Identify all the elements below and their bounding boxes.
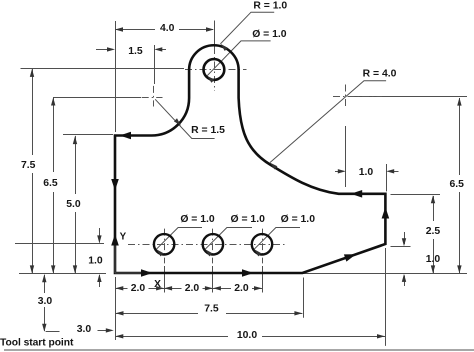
svg-text:1.0: 1.0 bbox=[88, 255, 103, 266]
svg-text:2.0: 2.0 bbox=[185, 283, 200, 294]
svg-text:6.5: 6.5 bbox=[449, 179, 464, 190]
svg-text:6.5: 6.5 bbox=[43, 178, 58, 189]
svg-text:10.0: 10.0 bbox=[237, 330, 257, 341]
svg-text:Ø = 1.0: Ø = 1.0 bbox=[180, 214, 215, 225]
svg-text:Ø = 1.0: Ø = 1.0 bbox=[252, 29, 287, 40]
svg-text:7.5: 7.5 bbox=[21, 160, 36, 171]
svg-text:5.0: 5.0 bbox=[66, 199, 81, 210]
svg-text:R = 1.0: R = 1.0 bbox=[253, 0, 287, 11]
svg-text:R = 1.5: R = 1.5 bbox=[191, 125, 225, 136]
svg-text:X: X bbox=[154, 279, 161, 290]
svg-text:3.0: 3.0 bbox=[77, 324, 92, 335]
svg-text:1.0: 1.0 bbox=[426, 254, 441, 265]
svg-text:Ø = 1.0: Ø = 1.0 bbox=[281, 214, 316, 225]
svg-text:2.0: 2.0 bbox=[234, 283, 249, 294]
svg-text:R = 4.0: R = 4.0 bbox=[363, 68, 397, 79]
svg-text:2.5: 2.5 bbox=[426, 226, 441, 237]
svg-text:3.0: 3.0 bbox=[38, 296, 53, 307]
svg-text:7.5: 7.5 bbox=[204, 304, 219, 315]
svg-text:Tool start point: Tool start point bbox=[0, 338, 74, 349]
svg-text:1.0: 1.0 bbox=[359, 167, 374, 178]
svg-text:4.0: 4.0 bbox=[160, 23, 175, 34]
svg-text:Y: Y bbox=[120, 232, 127, 243]
svg-text:1.5: 1.5 bbox=[128, 46, 143, 57]
svg-text:2.0: 2.0 bbox=[131, 283, 146, 294]
svg-text:Ø = 1.0: Ø = 1.0 bbox=[231, 214, 266, 225]
